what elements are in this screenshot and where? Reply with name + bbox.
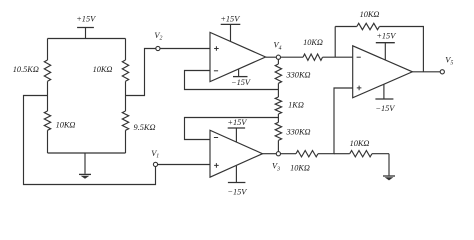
wire feedback top right segment and down to output: [379, 27, 423, 72]
wire node F right segment: [334, 153, 350, 155]
svg-text:−15V: −15V: [227, 187, 247, 196]
wire node A (bridge mid-left) to V1 terminal: [24, 96, 156, 185]
svg-text:−15V: −15V: [375, 104, 395, 113]
resistor 1K ohm (middle chain): [275, 97, 281, 114]
resistor 10K ohm (to ground): [350, 151, 372, 157]
wire V3 to 10K input resistor: [281, 153, 297, 155]
resistor 10K ohm (V4 to U3 inverting): [303, 54, 323, 60]
power +15V U2: [227, 118, 247, 142]
wire bridge left leg middle: [47, 81, 49, 111]
svg-text:10KΩ: 10KΩ: [360, 10, 380, 19]
wire chain node C segment: [277, 83, 279, 97]
wire V2 to U1 noninverting input: [160, 48, 210, 50]
wire bridge bottom rail: [48, 152, 126, 154]
wire bridge left leg upper: [47, 39, 49, 61]
svg-text:−15V: −15V: [231, 78, 251, 87]
op-amp U3 (difference amp): [353, 46, 413, 98]
wire U3 output to V5: [412, 71, 440, 73]
ground bridge: [79, 153, 91, 179]
svg-text:+15V: +15V: [227, 118, 247, 127]
wire bridge right leg lower: [125, 130, 127, 153]
svg-text:+15V: +15V: [220, 15, 240, 24]
svg-text:+15V: +15V: [376, 32, 396, 41]
power -15V U3: [375, 85, 395, 113]
power -15V U2: [227, 166, 247, 197]
svg-text:10KΩ: 10KΩ: [290, 164, 310, 173]
svg-text:330KΩ: 330KΩ: [286, 71, 311, 80]
wire 10K to U3 inverting input: [323, 56, 353, 58]
wire chain down to V3: [277, 140, 279, 151]
node V2 terminal: [156, 46, 160, 50]
svg-text:10KΩ: 10KΩ: [93, 65, 113, 74]
power +15V U1: [220, 15, 240, 42]
wire feedback top left segment: [335, 26, 357, 28]
wire bridge left leg lower: [47, 130, 49, 153]
wire node F to U3 noninverting input: [318, 88, 353, 154]
svg-text:330KΩ: 330KΩ: [286, 128, 311, 137]
node V5 terminal: [440, 70, 444, 74]
resistor 330K ohm (lower chain): [275, 122, 281, 140]
op-amp U1 (top): [210, 32, 266, 81]
node V1 terminal: [153, 162, 157, 166]
resistor 10K ohm (bridge upper right): [122, 60, 128, 81]
svg-text:+15V: +15V: [76, 15, 96, 24]
wire feedback node E up: [334, 27, 336, 58]
power +15V bridge supply: [76, 15, 96, 39]
wire V4 down to 330K: [277, 59, 279, 64]
resistor 10K ohm (U3 feedback): [357, 23, 380, 29]
wire U1 output to V4: [266, 56, 277, 58]
wire node B (bridge mid-right) up to V2: [126, 49, 156, 96]
wire bridge top rail: [48, 38, 126, 40]
resistor 10.5K ohm (bridge upper left): [44, 60, 50, 81]
node V4 terminal: [276, 55, 280, 59]
svg-text:1KΩ: 1KΩ: [288, 101, 304, 110]
wire V1 to U2 noninverting input: [158, 164, 210, 166]
wire 10K to ground corner: [372, 153, 389, 155]
svg-text:9.5KΩ: 9.5KΩ: [134, 123, 156, 132]
resistor 10K ohm (bridge lower left): [44, 111, 50, 130]
wire U2 inverting input feedback to node D: [185, 118, 279, 140]
wire U2 output to V3: [263, 153, 277, 155]
svg-text:10.5KΩ: 10.5KΩ: [13, 65, 39, 74]
node V3 terminal: [276, 152, 280, 156]
power -15V U1: [231, 69, 251, 87]
ground right: [383, 154, 395, 181]
svg-text:10KΩ: 10KΩ: [350, 139, 370, 148]
svg-text:10KΩ: 10KΩ: [56, 120, 76, 129]
power +15V U3: [376, 32, 396, 61]
wire V4 to 10K input resistor: [281, 56, 304, 58]
resistor 330K ohm (upper chain): [275, 64, 281, 83]
resistor 10K ohm (V3 to U3 noninverting): [296, 151, 318, 157]
resistor 9.5K ohm (bridge lower right): [122, 111, 128, 130]
wire bridge right leg upper: [125, 39, 127, 61]
wire bridge right leg middle: [125, 81, 127, 111]
wire U1 inverting input feedback to node C: [185, 71, 279, 90]
op-amp U2 (bottom): [210, 130, 263, 177]
wire chain node D segment: [277, 114, 279, 122]
svg-text:10KΩ: 10KΩ: [303, 38, 323, 47]
